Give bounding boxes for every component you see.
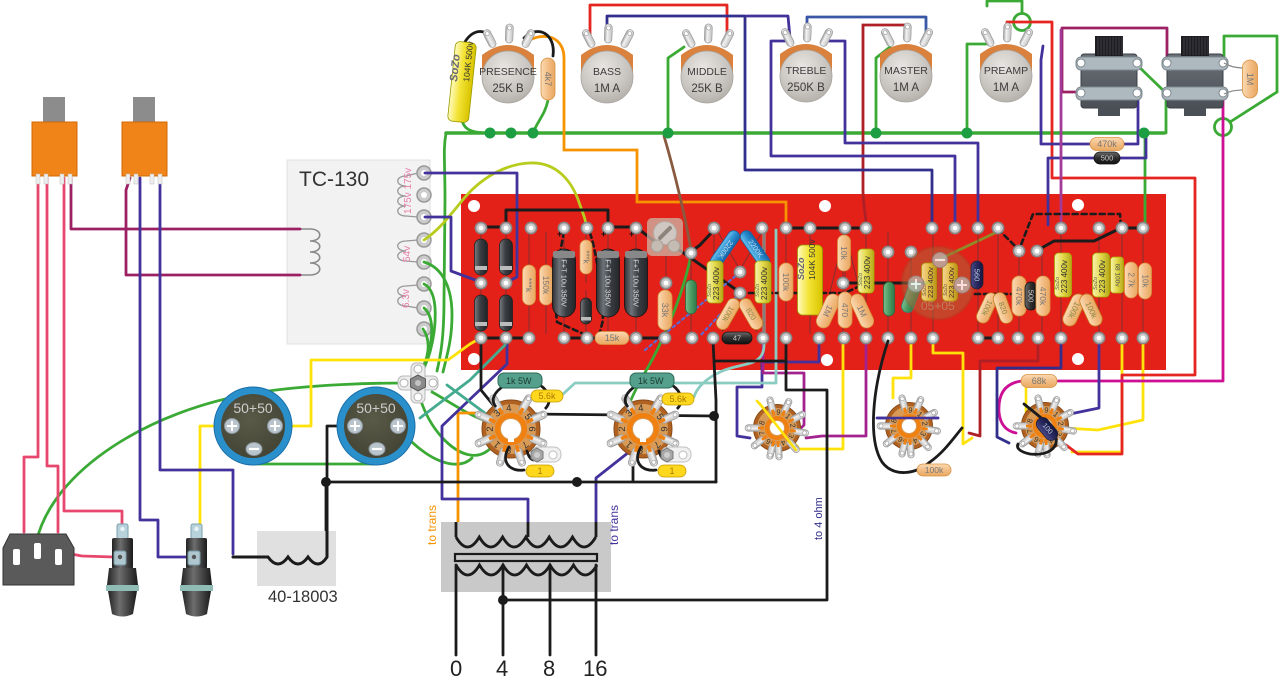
- wire black bottom left link: [481, 337, 531, 340]
- wire crimson switch1 to inlet 2: [47, 178, 58, 532]
- wire black OT tap 8: [549, 565, 552, 655]
- wire green 6.3v-b to heater lug: [414, 308, 432, 378]
- board turrets: [475, 222, 1148, 343]
- wire purple 175v-a to board: [425, 173, 517, 282]
- wire black OT tap 16: [595, 565, 598, 655]
- capacitor 68 100v: [1111, 257, 1124, 293]
- svg-text:470k: 470k: [1014, 287, 1024, 306]
- wire purple board to V1 top: [1058, 341, 1099, 417]
- svg-text:470k: 470k: [1097, 139, 1117, 149]
- wire purple treble lug link: [747, 16, 790, 38]
- wire purple V2 grid: [878, 417, 938, 420]
- wire cyan board to 5.6k V5: [694, 230, 764, 397]
- resistor green 2: [884, 282, 895, 316]
- ground lug strip: [398, 363, 438, 403]
- resistor 4k7: [541, 58, 555, 100]
- svg-text:500: 500: [1101, 154, 1114, 163]
- diode D2: [500, 239, 513, 275]
- wire dotted blue PI b: [700, 293, 740, 336]
- wire green loop diagonal: [1230, 92, 1277, 122]
- wire yellow cap1 plus to board: [276, 340, 477, 426]
- resistor 100k diag e: [1077, 292, 1104, 329]
- svg-text:470k: 470k: [1038, 287, 1048, 306]
- wire black junction to choke: [325, 482, 328, 562]
- node black junction socket: [709, 411, 719, 421]
- wire black V1 squiggle: [1018, 404, 1057, 454]
- resistor 100k diag c: [974, 291, 999, 325]
- wire dashed mid rail: [740, 284, 864, 293]
- svg-text:223 400v: 223 400v: [926, 267, 935, 298]
- wire green heater 2 to V4 socket: [420, 398, 494, 455]
- standby switch: [122, 97, 167, 184]
- resistor 470k b: [1036, 276, 1050, 316]
- wire magenta jack2 to jack1: [1062, 28, 1167, 92]
- resistor 15k: [595, 332, 629, 345]
- capacitor SoZo 223 400v b: [755, 261, 771, 303]
- svg-text:10k: 10k: [1141, 275, 1150, 289]
- wire dotted blue PI a: [645, 274, 738, 350]
- wire purple 175v-b to board: [425, 217, 478, 281]
- svg-text:to trans: to trans: [425, 505, 439, 545]
- svg-text:15k: 15k: [605, 333, 620, 343]
- svg-text:PREAMP: PREAMP: [984, 65, 1028, 77]
- svg-text:TREBLE: TREBLE: [786, 65, 827, 77]
- wire purple 470k to jack1: [1124, 99, 1138, 144]
- wire black bottom right link: [978, 337, 998, 340]
- svg-text:68 100v: 68 100v: [1114, 263, 1121, 287]
- wire green jack2 tip loop top: [1224, 36, 1277, 92]
- TC-130 terminals: [417, 166, 431, 336]
- svg-text:100k: 100k: [781, 273, 791, 292]
- wire green mains earth from inlet: [36, 383, 403, 543]
- wire black cross link: [716, 360, 786, 363]
- svg-text:470: 470: [840, 303, 850, 317]
- wire green 6.3v-a to heater lug: [419, 284, 435, 376]
- resistor 10k b: [1139, 263, 1152, 299]
- wire pink jack2 to 68k: [1058, 95, 1223, 381]
- wire purple board to OT primary: [442, 341, 528, 524]
- svg-text:TC-130: TC-130: [299, 168, 369, 191]
- wire navy board to V1: [997, 341, 1061, 443]
- wire green jack2 sleeve to bus: [1165, 93, 1168, 133]
- wire teal to board: [420, 345, 505, 418]
- wire purple across V2: [877, 417, 938, 420]
- potentiometer TREBLE 250K B: [780, 23, 834, 102]
- svg-text:10k: 10k: [839, 246, 849, 260]
- svg-text:4: 4: [506, 403, 512, 414]
- resistor 220k b: [580, 240, 592, 274]
- wire green bus into board: [1144, 133, 1147, 225]
- node green junction jack: [1139, 128, 1150, 139]
- wire purple treble right rail: [823, 41, 978, 225]
- resistor 470k a: [1012, 276, 1026, 316]
- svg-text:2: 2: [485, 426, 496, 431]
- potentiometer BASS 1M A: [581, 24, 635, 103]
- node black junction cap ground: [321, 477, 331, 487]
- wire green spare terminal to lug: [420, 329, 428, 372]
- wire black presence to cap: [465, 32, 492, 43]
- wire black V4 grid from board: [481, 341, 494, 406]
- wire black bias to PI: [675, 247, 738, 291]
- wire black socket link: [531, 414, 714, 416]
- wire black right bend: [1038, 228, 1121, 250]
- svg-text:0: 0: [450, 656, 462, 679]
- wire red bass to middle pot: [590, 5, 727, 42]
- resistor 68k: [1021, 375, 1057, 388]
- svg-text:6: 6: [526, 426, 537, 431]
- capacitor F+T 10u 350V a: [553, 249, 576, 317]
- wire green preamp pot to bus: [967, 44, 986, 133]
- node black junction OT tap 4: [498, 595, 508, 605]
- TC-130 secondary coils: [398, 173, 418, 308]
- svg-text:223 400v: 223 400v: [1060, 260, 1069, 293]
- resistor 2200k a: [708, 228, 742, 269]
- wire purple switch2 to choke: [160, 178, 233, 554]
- svg-text:1M A: 1M A: [594, 83, 621, 95]
- resistor teal diag: [900, 280, 922, 314]
- wire yellow cap1 plus to fuse2: [200, 426, 233, 528]
- wire purple V3 wrap: [737, 341, 819, 438]
- wire yellow V3 from board: [800, 340, 843, 449]
- wire black top right link: [1122, 227, 1145, 230]
- svg-text:***k: ***k: [582, 250, 591, 264]
- resistor 5.6k b: [662, 393, 694, 405]
- node green junction 4k7: [506, 128, 517, 139]
- capacitor SoZo 223 400v c: [858, 249, 874, 293]
- wire black V5 cathode loop: [638, 447, 672, 470]
- fuse holder 2: [180, 524, 213, 617]
- input jack 1: [1076, 36, 1142, 116]
- svg-text:F+T 10u 350V: F+T 10u 350V: [604, 259, 613, 307]
- svg-text:BASS: BASS: [593, 66, 621, 78]
- svg-text:16: 16: [583, 656, 607, 679]
- wire black OT tap 0: [455, 565, 458, 655]
- wire purple V5 to OT primary: [596, 452, 629, 524]
- wire magenta switch2 to transformer primary: [126, 178, 300, 275]
- wire red preamp feed long: [1007, 22, 1195, 454]
- svg-text:5.6k: 5.6k: [669, 394, 687, 404]
- svg-text:to 4 ohm: to 4 ohm: [813, 497, 825, 540]
- resistor 560: [971, 261, 983, 289]
- wire black cap2 plus to junction: [327, 426, 356, 481]
- wire magenta switch1 to transformer primary: [71, 178, 300, 229]
- wire green presence cap to bus: [462, 120, 490, 133]
- wire magenta board to V3 a: [763, 341, 804, 432]
- svg-text:4k7: 4k7: [543, 72, 553, 87]
- wire yellow V3 diagonal: [757, 401, 798, 447]
- wire purple 500 right to jack: [1120, 134, 1146, 158]
- svg-text:1: 1: [537, 466, 542, 476]
- wire green master pot to bus: [876, 47, 890, 133]
- resistor 100k diag a: [714, 296, 742, 332]
- potentiometer PRESENCE 25K B: [479, 24, 537, 103]
- svg-text:SoZo: SoZo: [796, 257, 806, 280]
- tube socket V5 octal: [606, 393, 680, 467]
- power switch: [32, 97, 77, 184]
- svg-text:223 400v: 223 400v: [712, 267, 721, 300]
- wire black OT tap 4: [502, 565, 505, 655]
- wire black board top-left link: [481, 226, 506, 229]
- wire orange V4 plate to output transformer: [458, 413, 484, 524]
- svg-text:50+50: 50+50: [233, 400, 273, 416]
- filter cap 50+50 a: [214, 387, 292, 465]
- svg-text:05+05: 05+05: [921, 299, 955, 313]
- svg-text:1k 5W: 1k 5W: [506, 376, 532, 386]
- wire green loop at preamp: [1014, 14, 1031, 31]
- svg-text:1M A: 1M A: [993, 82, 1020, 94]
- wire black board jumper: [506, 210, 608, 227]
- mains inlet: [3, 534, 74, 585]
- svg-text:25K B: 25K B: [691, 83, 723, 95]
- fuse holder 1: [106, 524, 139, 617]
- svg-text:50+50: 50+50: [356, 400, 396, 416]
- svg-text:150k: 150k: [541, 276, 551, 295]
- component leads: [481, 227, 1143, 338]
- wire yellow V1 left yellow: [1072, 340, 1122, 452]
- svg-text:223 400v: 223 400v: [863, 256, 872, 289]
- output transformer: [441, 522, 611, 592]
- resistor 47: [722, 332, 752, 344]
- wire black bottom link 3: [628, 337, 666, 340]
- wire dashed top zigzag: [998, 214, 1121, 250]
- svg-text:560: 560: [973, 269, 982, 282]
- diode D5: [581, 298, 592, 324]
- capacitor SoZo 223 400v a: [707, 261, 723, 303]
- resistor 5.6k a: [531, 390, 563, 402]
- wire black board to junction: [713, 341, 716, 482]
- resistor 1k 5W a: [493, 385, 549, 409]
- wire black V2 loop: [873, 341, 962, 473]
- wire crimson switch1 to fuse1 top: [64, 178, 122, 532]
- potentiometer MASTER 1M A: [880, 23, 934, 102]
- svg-text:F+T 10u 350V: F+T 10u 350V: [632, 259, 641, 307]
- node green junction middle: [663, 128, 674, 139]
- wire purple preamp to 470k: [1041, 46, 1090, 144]
- wire magenta board to V3 b: [806, 341, 866, 438]
- choke 40-18003: [233, 484, 338, 606]
- wire blue treble wiper to master: [807, 17, 926, 36]
- resistor 1 ohm a: [526, 465, 554, 477]
- wire olive bus to board: [664, 136, 691, 250]
- wire black V4 cathode loop: [506, 447, 540, 470]
- capacitor SoZo 104K 500v main: [798, 245, 823, 315]
- wire cyan board to 5.6k V4: [562, 230, 776, 395]
- svg-text:***k: ***k: [524, 278, 534, 293]
- wire chartreuse 54v to board: [424, 163, 586, 240]
- wire green V5 heater from board: [628, 255, 691, 408]
- wire purple switch2 to fuse2 a: [140, 178, 190, 557]
- diode D4: [500, 295, 513, 331]
- resistor 150k: [540, 265, 553, 305]
- capacitor 100 V1: [1034, 415, 1061, 443]
- wire green filter cap minus link: [254, 450, 377, 464]
- tube socket V4 octal: [474, 393, 548, 467]
- svg-text:9: 9: [1044, 405, 1049, 414]
- wire green jack2 crossover: [1166, 63, 1222, 93]
- svg-text:100k: 100k: [925, 465, 944, 475]
- wire green 54v-b to heater lug: [424, 262, 452, 372]
- resistor 1 ohm b: [658, 465, 686, 477]
- svg-text:MASTER: MASTER: [884, 65, 928, 77]
- svg-text:175v 175v: 175v 175v: [403, 168, 414, 214]
- wire yellow 68k to V1 pin: [1025, 388, 1028, 412]
- resistor 1k 5W b: [625, 385, 681, 409]
- svg-text:223 400v: 223 400v: [1098, 260, 1107, 293]
- resistor 470 fan: [838, 292, 852, 328]
- svg-text:40-18003: 40-18003: [268, 588, 338, 606]
- wire black to 4 ohm tap: [503, 341, 827, 600]
- filter cap 50+50 b: [337, 387, 415, 465]
- node green junction preamp: [962, 128, 973, 139]
- svg-text:4: 4: [496, 656, 508, 679]
- resistor 820 diag: [737, 296, 765, 332]
- resistor 1M jack: [1224, 63, 1249, 94]
- wire green cap2 plus to heater: [399, 428, 472, 464]
- svg-text:+: +: [601, 229, 606, 239]
- svg-text:+: +: [629, 229, 634, 239]
- resistor green 100 ohm: [686, 280, 697, 314]
- resistor 1M fan a: [814, 292, 842, 331]
- diode D3: [475, 295, 488, 331]
- svg-text:54v: 54v: [402, 246, 413, 262]
- board mounting holes: [468, 199, 1084, 366]
- power transformer TC-130: [287, 160, 430, 344]
- svg-text:500: 500: [1027, 290, 1036, 303]
- wire green middle pot to bus: [668, 47, 684, 133]
- wire orange presence to board: [526, 36, 786, 224]
- tube socket V2 noval: [877, 394, 941, 458]
- wire purple 500 left to board: [1048, 158, 1094, 225]
- wire purple bass wiper rail: [607, 16, 932, 225]
- svg-text:8: 8: [543, 656, 555, 679]
- diode D1: [475, 239, 488, 275]
- resistor 2200k b: [738, 228, 772, 269]
- wire magenta jack to board: [1060, 30, 1063, 225]
- svg-text:1k 5W: 1k 5W: [638, 376, 664, 386]
- svg-text:2: 2: [617, 426, 628, 431]
- wire green 4k7 to bus: [533, 100, 548, 133]
- svg-text:F+T 10u 350V: F+T 10u 350V: [560, 259, 569, 307]
- resistor 100k diag d: [1060, 292, 1087, 329]
- capacitor can 50+50 overlay: [902, 247, 974, 319]
- capacitor SoZo 104K 500v presence: [447, 41, 476, 123]
- capacitor F+T 10u 350V c: [625, 249, 648, 317]
- wire black top mid link: [786, 227, 866, 230]
- bias trim pot: [647, 218, 683, 256]
- svg-text:1M: 1M: [1245, 73, 1255, 86]
- wire pink 68k to V1: [999, 381, 1022, 433]
- node black junction under V5: [572, 477, 582, 487]
- tube socket V3 noval: [745, 396, 809, 460]
- svg-text:4: 4: [638, 403, 644, 414]
- wire dashed right rail: [975, 286, 1041, 294]
- wire green bus (pots ground bus): [446, 131, 1164, 135]
- svg-text:6: 6: [658, 426, 669, 431]
- svg-text:9: 9: [908, 405, 913, 414]
- svg-text:104K 500v: 104K 500v: [807, 239, 817, 280]
- solder lug V5: [661, 447, 691, 462]
- wire black mid rail: [843, 282, 930, 285]
- wire crimson switch1 to inlet 1: [24, 178, 38, 532]
- svg-text:1: 1: [669, 466, 674, 476]
- wire black V5 riser: [632, 450, 635, 481]
- svg-text:223 400v: 223 400v: [760, 267, 769, 300]
- svg-text:250K B: 250K B: [787, 82, 825, 94]
- svg-text:+: +: [557, 229, 562, 239]
- svg-text:MIDDLE: MIDDLE: [687, 66, 727, 78]
- resistor 820 diag b: [991, 291, 1014, 326]
- svg-text:9: 9: [776, 407, 781, 416]
- resistor 220k: [523, 265, 536, 305]
- capacitor F+T 10u 350V b: [597, 249, 620, 317]
- node green junction presence: [485, 128, 496, 139]
- TC-130 primary coil: [300, 229, 320, 275]
- wire green bus left drop to heater lug: [437, 133, 446, 371]
- wire black presence wiper to 4k7: [524, 32, 553, 56]
- capacitor SoZo 223 400v d: [1055, 253, 1072, 297]
- resistor 33k: [658, 290, 672, 330]
- svg-text:PRESENCE: PRESENCE: [479, 66, 537, 78]
- svg-text:33k: 33k: [660, 303, 670, 318]
- wire green heater pair to V4 socket: [432, 392, 486, 421]
- turret board: [461, 194, 1166, 370]
- wire green preamp top loop: [987, 1, 1022, 13]
- wire green jack1 to jack2 crossover: [1136, 64, 1166, 93]
- potentiometer PREAMP 1M A: [980, 23, 1034, 102]
- svg-text:2.7k: 2.7k: [1127, 272, 1136, 288]
- wire black bottom link 2: [564, 337, 597, 340]
- wire black link to bias: [610, 227, 658, 244]
- wire yellow across V3: [760, 404, 796, 450]
- potentiometer MIDDLE 25K B: [681, 24, 735, 103]
- wire olive board to cap minus: [940, 231, 999, 259]
- wire dashed cathode left: [590, 233, 603, 332]
- wire black ground bus under caps: [326, 481, 716, 484]
- svg-text:68k: 68k: [1032, 376, 1047, 386]
- wire darkred V2 from board: [969, 341, 1038, 436]
- svg-text:6.3v: 6.3v: [401, 289, 412, 308]
- resistor 10k a: [838, 235, 851, 271]
- node green junction sozo: [528, 128, 539, 139]
- svg-text:to trans: to trans: [607, 505, 621, 545]
- solder lug V4: [531, 447, 561, 462]
- resistor 2.7k: [1125, 262, 1138, 298]
- wire crimson inlet to fuse1 side: [60, 552, 114, 557]
- wire green wire loop: [1215, 119, 1232, 136]
- wire yellow V1 right yellow: [1064, 340, 1143, 430]
- resistor 500 grid: [1094, 152, 1120, 164]
- input jack 2: [1162, 36, 1228, 116]
- resistor 500 dark: [1025, 282, 1037, 310]
- wire teal heater lug diagonal: [447, 385, 497, 422]
- resistor 100k V2: [917, 464, 951, 476]
- wire yellow V2 right from board: [933, 340, 972, 444]
- svg-text:1M A: 1M A: [893, 82, 920, 94]
- svg-text:25K B: 25K B: [492, 83, 524, 95]
- wire darkred master to board: [863, 25, 906, 225]
- resistor 1M fan b: [848, 292, 876, 331]
- capacitor SoZo 223 400v e: [1093, 253, 1110, 297]
- svg-text:5.6k: 5.6k: [538, 391, 556, 401]
- wire purple treble left rail: [771, 41, 955, 225]
- wire dashed around cap1: [556, 232, 588, 336]
- wire yellow V2 grid from board: [893, 340, 911, 398]
- node green junction master: [871, 128, 882, 139]
- svg-text:47: 47: [733, 334, 741, 343]
- resistor 470k grid: [1090, 138, 1124, 151]
- tube socket V1 noval: [1013, 394, 1077, 458]
- resistor 100k b: [779, 263, 793, 301]
